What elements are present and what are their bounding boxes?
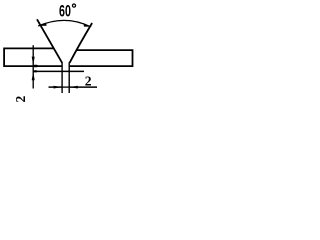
right plate outline — [69, 50, 132, 66]
degree symbol — [72, 4, 75, 7]
label 60 (angle value) — [59, 2, 71, 20]
left bevel face (groove) — [37, 19, 62, 63]
vertical dimension line (root land) — [32, 45, 34, 88]
background — [0, 0, 138, 111]
right-pointing arrowhead on lower dimension at left root face — [54, 86, 63, 89]
arc arrowhead left — [38, 23, 47, 26]
down arrowhead on vertical dimension — [32, 57, 35, 66]
right root face + extension line — [68, 62, 70, 93]
lower root gap dimension line middle segment — [62, 86, 69, 88]
up arrowhead on vertical dimension — [32, 72, 35, 81]
ink blob where up arrow meets gap dimension line — [34, 70, 38, 72]
svg-text:2: 2 — [13, 96, 28, 103]
lower root gap dimension line right segment — [69, 86, 97, 88]
right bevel face (groove) — [70, 23, 93, 63]
ink blob where down arrow meets plate bottom edge — [34, 65, 38, 68]
svg-text:2: 2 — [85, 74, 92, 89]
root gap dimension line — [33, 70, 84, 72]
svg-text:60: 60 — [59, 2, 71, 20]
angle dimension arc — [38, 20, 90, 26]
left plate outline — [4, 48, 62, 66]
left root face + extension line — [61, 62, 63, 93]
lower root gap dimension line left segment — [49, 86, 63, 88]
arc arrowhead right — [83, 23, 91, 27]
left-pointing arrowhead on lower dimension at right root face — [69, 86, 78, 89]
